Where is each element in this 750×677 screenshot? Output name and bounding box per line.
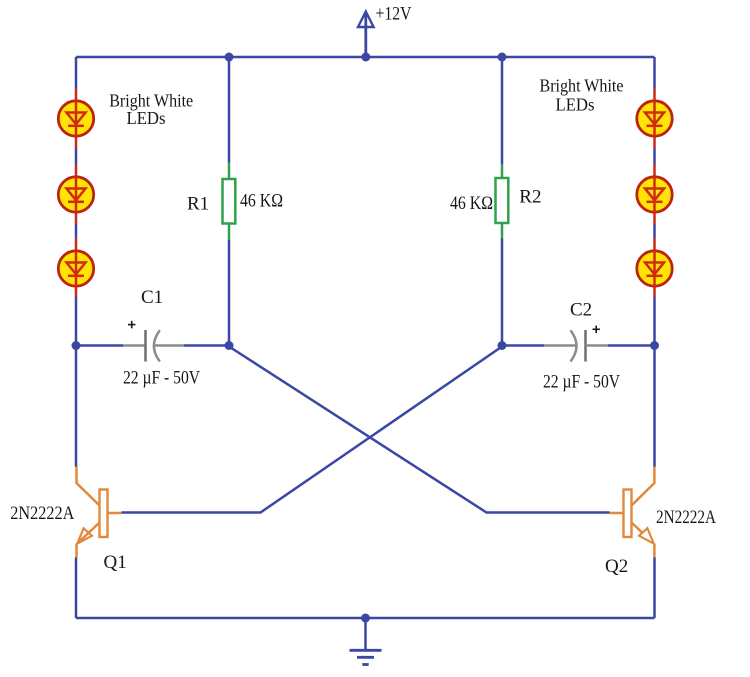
wire Q2 collector [653, 346, 656, 468]
wire right rail upper [653, 57, 656, 89]
svg-text:2N2222A: 2N2222A [656, 507, 716, 528]
wire Q1 emitter to ground rail [75, 558, 78, 619]
svg-text:LEDs: LEDs [556, 95, 595, 115]
label 2N2222A left [10, 503, 74, 524]
wire R1 branch upper [228, 57, 231, 163]
transistor Q2 [610, 467, 655, 558]
LED D6 [637, 239, 672, 298]
value 46 KΩ left [240, 191, 283, 212]
+12V label [376, 4, 412, 25]
LED D2 [58, 164, 93, 224]
svg-text:R2: R2 [519, 187, 541, 208]
wire R2 branch upper [501, 57, 504, 164]
svg-text:C1: C1 [141, 287, 163, 308]
svg-text:22 µF - 50V: 22 µF - 50V [123, 368, 200, 389]
svg-text:Bright White: Bright White [540, 76, 624, 96]
node C2 left junction [498, 341, 507, 350]
resistor R1 [223, 163, 236, 241]
svg-text:R1: R1 [187, 194, 209, 215]
wire Q2 emitter to ground rail [653, 558, 656, 619]
value 46 KΩ right [450, 193, 493, 214]
LED D5 [637, 164, 672, 224]
svg-text:Q1: Q1 [104, 552, 127, 573]
svg-text:LEDs: LEDs [127, 108, 166, 128]
wire C1 left [76, 344, 123, 347]
node top R1 junction [225, 53, 234, 62]
capacitor C1 [123, 321, 184, 362]
node top R2 junction [498, 53, 507, 62]
LED D1 [58, 89, 93, 149]
label Bright White LEDs left [109, 91, 193, 129]
label R1 [187, 194, 209, 215]
value 22 uF - 50V left [123, 368, 200, 389]
svg-text:2N2222A: 2N2222A [10, 503, 74, 524]
wire between D4 D5 [653, 148, 656, 164]
label R2 [519, 187, 541, 208]
svg-text:46 KΩ: 46 KΩ [240, 191, 283, 212]
+12V supply symbol [358, 12, 374, 58]
node C1 left junction [72, 341, 81, 350]
wire cross coupling C1 node to Q2 base [229, 347, 610, 513]
svg-text:+12V: +12V [376, 4, 412, 25]
resistor R2 [496, 164, 509, 239]
value 22 uF - 50V right [543, 372, 620, 393]
wire R1 branch lower [228, 240, 231, 346]
svg-text:22 µF - 50V: 22 µF - 50V [543, 372, 620, 393]
capacitor C2 [544, 326, 608, 362]
wire C2 left [502, 344, 544, 347]
wire Q1 collector [75, 346, 78, 468]
wire C2 right [608, 344, 655, 347]
wire right rail to C2 node [653, 297, 656, 346]
wire C1 right [184, 344, 229, 347]
label C2 [570, 300, 592, 321]
LED D3 [58, 239, 93, 298]
node +12V junction [361, 53, 370, 62]
wire left rail to C1 node [75, 297, 78, 346]
ground [350, 618, 382, 665]
label Bright White LEDs right [540, 76, 624, 115]
wire between D1 D2 [75, 148, 78, 164]
node ground junction [361, 614, 370, 623]
label Q1 [104, 552, 127, 573]
wire bottom rail [76, 617, 655, 620]
svg-text:Q2: Q2 [605, 556, 628, 577]
node C2 right junction [650, 341, 659, 350]
svg-text:46 KΩ: 46 KΩ [450, 193, 493, 214]
transistor Q1 [77, 467, 122, 558]
wire left rail upper [75, 57, 78, 89]
label C1 [141, 287, 163, 308]
svg-text:C2: C2 [570, 300, 592, 321]
wire top rail [76, 56, 655, 59]
node C1 right junction [225, 341, 234, 350]
LED D4 [637, 89, 672, 149]
label 2N2222A right [656, 507, 716, 528]
wire between D5 D6 [653, 224, 656, 239]
wire R2 branch lower [501, 239, 504, 346]
wire cross coupling C2 node to Q1 base [122, 347, 503, 513]
label Q2 [605, 556, 628, 577]
wire between D2 D3 [75, 224, 78, 239]
